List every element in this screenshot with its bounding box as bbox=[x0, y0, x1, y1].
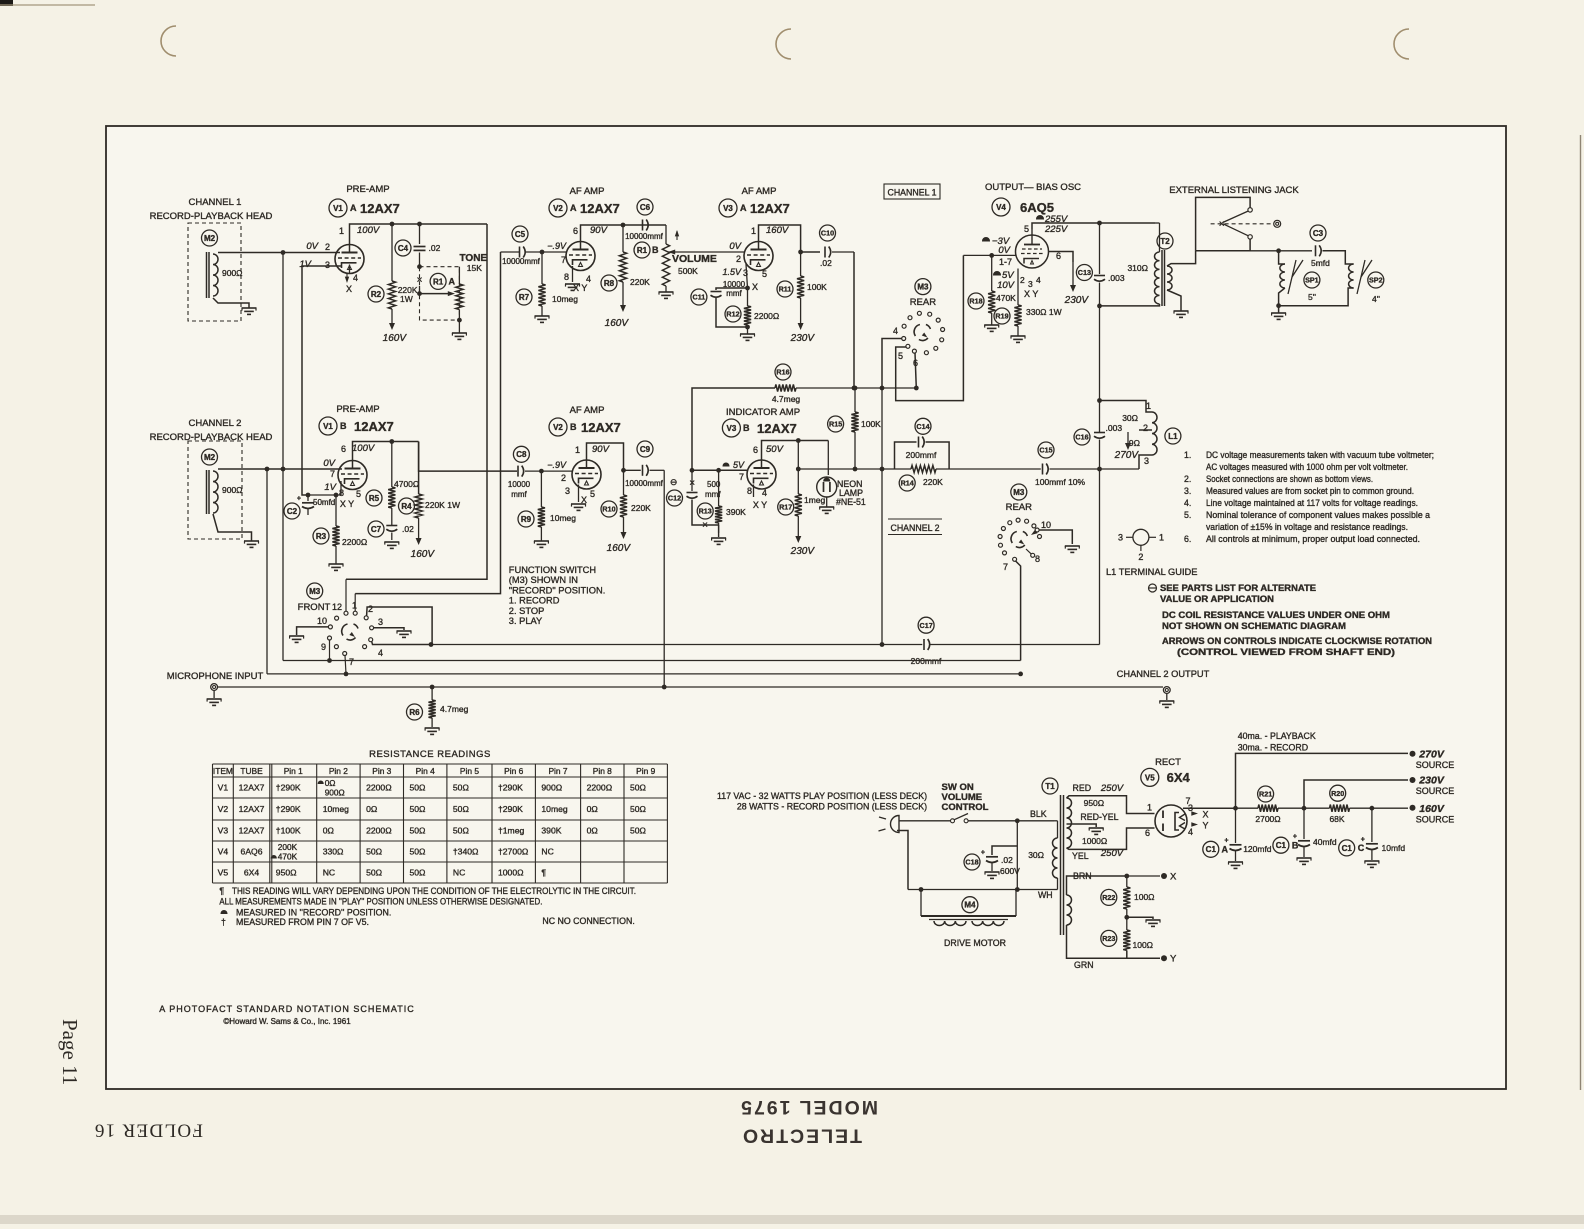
transformer T2 bbox=[1157, 233, 1173, 249]
svg-text:C5: C5 bbox=[515, 230, 526, 239]
svg-text:2200Ω: 2200Ω bbox=[342, 537, 367, 547]
svg-text:NC NO CONNECTION.: NC NO CONNECTION. bbox=[542, 916, 634, 926]
wire 160V source line bbox=[1350, 807, 1409, 809]
svg-text:V1: V1 bbox=[218, 783, 229, 793]
svg-text:310Ω: 310Ω bbox=[1127, 263, 1148, 273]
wire R11 to 230V bbox=[800, 298, 802, 324]
svg-text:2. STOP: 2. STOP bbox=[509, 606, 544, 616]
wire T2 primary top bbox=[1155, 222, 1160, 224]
svg-text:CHANNEL 2 OUTPUT: CHANNEL 2 OUTPUT bbox=[1117, 669, 1210, 679]
ground switch pin 10 bbox=[289, 635, 304, 637]
svg-text:30Ω: 30Ω bbox=[1122, 413, 1138, 423]
svg-text:Y: Y bbox=[1170, 954, 1177, 965]
svg-text:100K: 100K bbox=[807, 282, 827, 292]
svg-text:variation of ±15% in voltage a: variation of ±15% in voltage and resista… bbox=[1206, 522, 1408, 532]
svg-text:R14: R14 bbox=[901, 479, 914, 488]
capacitor C2 50mfd bbox=[284, 503, 300, 519]
wire R23 bottom to Y and heater bottom bbox=[1127, 950, 1160, 958]
ground microphone jack bbox=[207, 698, 222, 700]
svg-text:×: × bbox=[417, 275, 423, 286]
svg-text:12AX7: 12AX7 bbox=[360, 201, 400, 216]
svg-text:¶: ¶ bbox=[541, 868, 546, 878]
svg-text:−.9V: −.9V bbox=[547, 241, 567, 251]
T1 center tap RED-YEL bbox=[1067, 824, 1097, 827]
svg-text:0Ω: 0Ω bbox=[323, 826, 335, 836]
ground V3A cathode node bbox=[745, 325, 750, 330]
svg-text:50V: 50V bbox=[766, 444, 785, 455]
svg-text:B: B bbox=[652, 245, 659, 255]
svg-text:200K: 200K bbox=[278, 842, 298, 852]
svg-text:390K: 390K bbox=[726, 507, 746, 517]
svg-text:160V: 160V bbox=[411, 549, 436, 560]
svg-text:900Ω: 900Ω bbox=[541, 783, 562, 793]
pin labels V5 heater bbox=[1191, 811, 1198, 816]
svg-text:RECORD-PLAYBACK HEAD: RECORD-PLAYBACK HEAD bbox=[150, 211, 273, 222]
svg-text:12AX7: 12AX7 bbox=[354, 419, 394, 434]
svg-text:10000mmf: 10000mmf bbox=[625, 479, 664, 488]
svg-text:220K: 220K bbox=[630, 277, 650, 287]
svg-text:10: 10 bbox=[317, 616, 327, 626]
svg-text:T2: T2 bbox=[1160, 237, 1170, 246]
wire SP1 bottom to ground bbox=[1279, 288, 1285, 313]
svg-text:C10: C10 bbox=[821, 229, 834, 238]
wire riser x882 from R16 line down to bus A bbox=[881, 388, 883, 645]
svg-text:7: 7 bbox=[1003, 562, 1008, 572]
resistor R4 220K 1W bbox=[418, 442, 420, 495]
wire V2B cathode to ground bbox=[578, 485, 580, 503]
svg-text:100K: 100K bbox=[861, 419, 881, 429]
wire R8 to 160V bbox=[622, 282, 624, 306]
svg-text:12AX7: 12AX7 bbox=[581, 420, 621, 435]
pentode V4 bbox=[1016, 235, 1049, 268]
svg-text:3. PLAY: 3. PLAY bbox=[509, 616, 542, 626]
svg-text:M4: M4 bbox=[964, 901, 976, 910]
svg-text:All controls at minimum, prop: All controls at minimum, proper output l… bbox=[1206, 534, 1420, 544]
svg-text:4.7meg: 4.7meg bbox=[772, 394, 801, 404]
svg-text:900Ω: 900Ω bbox=[222, 268, 243, 278]
svg-text:†290K: †290K bbox=[498, 804, 523, 814]
wire head ch2 lower lead to ground bbox=[213, 514, 252, 541]
svg-text:C9: C9 bbox=[640, 445, 651, 454]
svg-text:3: 3 bbox=[325, 260, 330, 270]
svg-text:X: X bbox=[1203, 810, 1209, 820]
svg-text:4'': 4'' bbox=[1372, 294, 1380, 304]
microphone input jack bbox=[211, 684, 218, 691]
svg-text:6X4: 6X4 bbox=[1167, 770, 1191, 785]
svg-text:.02: .02 bbox=[1001, 855, 1013, 865]
svg-text:50Ω: 50Ω bbox=[630, 826, 647, 836]
resistor R22 100 ohm bbox=[1126, 876, 1128, 887]
ground R19 bbox=[1017, 326, 1019, 336]
capacitor C8 10000mmf bbox=[513, 446, 529, 462]
svg-text:C3: C3 bbox=[1313, 229, 1324, 238]
capacitor C11 10000mmf bbox=[691, 289, 707, 305]
svg-text:AF AMP: AF AMP bbox=[570, 405, 605, 416]
svg-text:V1: V1 bbox=[323, 422, 333, 431]
svg-text:1: 1 bbox=[1159, 533, 1164, 543]
ground T2 secondary bbox=[1174, 310, 1189, 312]
svg-text:0V: 0V bbox=[323, 458, 336, 469]
capacitor C17 200mmf bbox=[918, 617, 934, 633]
svg-text:R16: R16 bbox=[776, 368, 789, 377]
svg-text:Pin 4: Pin 4 bbox=[416, 766, 435, 776]
svg-text:6: 6 bbox=[1056, 251, 1061, 261]
svg-text:TUBE: TUBE bbox=[240, 766, 263, 776]
svg-text:330Ω: 330Ω bbox=[323, 847, 344, 857]
wire R21 to R20 bbox=[1278, 807, 1330, 809]
wire jack to speakers bbox=[1250, 250, 1312, 252]
svg-text:5: 5 bbox=[590, 489, 595, 499]
ground R7 bbox=[541, 306, 543, 316]
svg-text:RECT: RECT bbox=[1155, 757, 1181, 768]
svg-text:C18: C18 bbox=[965, 858, 978, 867]
svg-text:40mfd: 40mfd bbox=[1313, 837, 1337, 847]
svg-text:2: 2 bbox=[1138, 552, 1143, 562]
svg-text:.02: .02 bbox=[820, 258, 832, 268]
triode V1A bbox=[335, 245, 364, 274]
svg-text:A: A bbox=[740, 203, 747, 213]
capacitor C6 10000mmf bbox=[637, 199, 653, 215]
svg-text:2700Ω: 2700Ω bbox=[1255, 814, 1280, 824]
svg-text:C1: C1 bbox=[1206, 845, 1217, 854]
svg-text:T1: T1 bbox=[1045, 782, 1055, 791]
wire V2A cathode to ground bbox=[572, 266, 574, 282]
motor M4 drive motor bbox=[962, 897, 978, 913]
triode V3A bbox=[744, 242, 773, 271]
svg-text:R5: R5 bbox=[369, 494, 380, 503]
svg-text:DC voltage measurements taken: DC voltage measurements taken with vacuu… bbox=[1206, 450, 1434, 460]
svg-text:NC: NC bbox=[323, 868, 335, 878]
svg-text:5: 5 bbox=[898, 351, 903, 361]
wire T2 primary bottom bbox=[1100, 304, 1160, 306]
ground C1A bbox=[1228, 861, 1243, 863]
svg-text:RESISTANCE READINGS: RESISTANCE READINGS bbox=[369, 749, 491, 760]
wire main B+ line bbox=[1236, 807, 1259, 809]
wire V1A plate rail bbox=[350, 224, 488, 238]
svg-text:2200Ω: 2200Ω bbox=[754, 311, 779, 321]
svg-text:50Ω: 50Ω bbox=[453, 783, 470, 793]
svg-text:L1 TERMINAL GUIDE: L1 TERMINAL GUIDE bbox=[1106, 567, 1197, 577]
svg-text:NC: NC bbox=[453, 868, 465, 878]
svg-text:SOURCE: SOURCE bbox=[1416, 760, 1455, 770]
svg-text:†100K: †100K bbox=[276, 826, 301, 836]
svg-text:.003: .003 bbox=[1106, 423, 1123, 433]
ground R9 bbox=[540, 527, 542, 541]
resistor R3 2200 ohm bbox=[335, 495, 337, 526]
svg-text:270V: 270V bbox=[1114, 450, 1140, 461]
svg-text:⊖: ⊖ bbox=[670, 477, 678, 487]
svg-text:2200Ω: 2200Ω bbox=[587, 783, 613, 793]
svg-text:REAR: REAR bbox=[1006, 502, 1033, 513]
svg-text:10: 10 bbox=[1041, 520, 1051, 530]
svg-text:C11: C11 bbox=[693, 293, 706, 302]
wire 270V source line bbox=[1236, 753, 1409, 808]
svg-text:50Ω: 50Ω bbox=[366, 868, 383, 878]
svg-text:4.7meg: 4.7meg bbox=[440, 704, 469, 714]
svg-text:REAR: REAR bbox=[910, 297, 937, 308]
svg-text:90V: 90V bbox=[592, 444, 611, 455]
svg-text:V5: V5 bbox=[218, 868, 229, 878]
svg-text:MEASURED FROM PIN 7 OF V5.: MEASURED FROM PIN 7 OF V5. bbox=[236, 917, 369, 927]
svg-text:220K: 220K bbox=[923, 477, 943, 487]
svg-text:470K: 470K bbox=[996, 293, 1016, 303]
svg-text:2: 2 bbox=[736, 254, 741, 264]
resistor R9 10meg bbox=[540, 471, 542, 507]
svg-text:4700Ω: 4700Ω bbox=[394, 479, 419, 489]
svg-text:0Ω: 0Ω bbox=[366, 804, 378, 814]
switch on volume control bbox=[951, 819, 955, 823]
svg-text:R19: R19 bbox=[995, 312, 1008, 321]
ground R13 bbox=[718, 525, 720, 537]
svg-text:5: 5 bbox=[356, 489, 361, 499]
svg-text:−.9V: −.9V bbox=[547, 460, 567, 470]
svg-text:C6: C6 bbox=[640, 203, 651, 212]
svg-text:SP2: SP2 bbox=[1369, 276, 1383, 285]
ground V2A cathode bbox=[565, 283, 580, 285]
svg-text:+: + bbox=[1361, 837, 1365, 844]
svg-text:Pin 3: Pin 3 bbox=[372, 766, 391, 776]
svg-text:NC: NC bbox=[541, 847, 553, 857]
rectifier tube V5 bbox=[1155, 805, 1187, 837]
svg-text:V5: V5 bbox=[1145, 773, 1155, 782]
svg-text:250V: 250V bbox=[1100, 848, 1125, 859]
svg-text:CHANNEL 2: CHANNEL 2 bbox=[189, 418, 242, 429]
wire ch2 head bus down to mic line bbox=[266, 469, 268, 674]
svg-text:10meg: 10meg bbox=[552, 294, 578, 304]
wire R16 line bbox=[692, 388, 775, 470]
resistor R6 4.7meg bbox=[431, 687, 433, 700]
svg-text:C16: C16 bbox=[1075, 433, 1088, 442]
svg-text:(CONTROL VIEWED FROM SHAFT END: (CONTROL VIEWED FROM SHAFT END) bbox=[1177, 647, 1395, 657]
triode V3B bbox=[747, 460, 776, 489]
svg-text:330Ω 1W: 330Ω 1W bbox=[1026, 307, 1062, 317]
resistor R21 2700 ohm bbox=[1258, 805, 1278, 812]
svg-text:90V: 90V bbox=[590, 225, 609, 236]
svg-text:160V: 160V bbox=[607, 543, 632, 554]
wire switch to T1 bbox=[968, 820, 1054, 822]
svg-text:R1: R1 bbox=[637, 246, 648, 255]
svg-text:Pin 9: Pin 9 bbox=[636, 766, 655, 776]
wire plug to switch bbox=[899, 820, 951, 822]
svg-text:50Ω: 50Ω bbox=[410, 847, 427, 857]
wire T1 HV bottom to V5 pin 6 bbox=[1067, 828, 1155, 849]
ac plug bbox=[891, 816, 900, 833]
svg-text:10000: 10000 bbox=[508, 480, 531, 489]
svg-text:7: 7 bbox=[330, 469, 335, 479]
wire V3B cathode bbox=[753, 485, 755, 498]
svg-text:OUTPUT— BIAS OSC: OUTPUT— BIAS OSC bbox=[985, 182, 1081, 193]
wire V4 grid bbox=[963, 254, 1015, 256]
svg-text:EXTERNAL LISTENING JACK: EXTERNAL LISTENING JACK bbox=[1169, 185, 1299, 196]
svg-text:mmf: mmf bbox=[511, 490, 527, 499]
resistor R10 220K bbox=[623, 470, 625, 495]
svg-text:†: † bbox=[221, 917, 226, 927]
svg-text:1V: 1V bbox=[324, 482, 337, 493]
svg-text:3: 3 bbox=[1118, 533, 1123, 543]
svg-text:R4: R4 bbox=[401, 502, 412, 511]
ground head ch2 bbox=[244, 540, 259, 542]
svg-text:R23: R23 bbox=[1102, 934, 1115, 943]
svg-text:C15: C15 bbox=[1039, 446, 1052, 455]
svg-text:0Ω: 0Ω bbox=[325, 778, 336, 788]
svg-text:V4: V4 bbox=[996, 203, 1006, 212]
T1 heater winding bbox=[1067, 895, 1072, 925]
resistor R23 100 ohm bbox=[1123, 930, 1130, 950]
svg-text:Y: Y bbox=[1203, 821, 1209, 831]
svg-text:1: 1 bbox=[1146, 401, 1151, 411]
switch M3 rear (channel 2) bbox=[1011, 484, 1027, 500]
svg-text:Pin 8: Pin 8 bbox=[593, 766, 612, 776]
svg-text:6AQ6: 6AQ6 bbox=[241, 847, 263, 857]
wire V1A cathode pin3 to channel2 cathode node bbox=[302, 266, 342, 495]
svg-text:1W: 1W bbox=[400, 294, 413, 304]
wire V3B grid line bbox=[692, 469, 748, 471]
wire R22 R23 junction to ground bbox=[1126, 909, 1128, 930]
svg-text:V4: V4 bbox=[218, 847, 229, 857]
wire V1A plate rail down right side bbox=[346, 224, 487, 579]
svg-text:15K: 15K bbox=[467, 263, 482, 273]
svg-text:FRONT: FRONT bbox=[298, 602, 331, 613]
resistor R19 330 ohm 1W bbox=[994, 308, 1010, 324]
wire V4 screen to 230V bbox=[1049, 252, 1074, 263]
inductor L1 bbox=[1165, 428, 1181, 444]
resistor R13 390K bbox=[718, 470, 720, 506]
svg-text:50Ω: 50Ω bbox=[630, 804, 647, 814]
svg-text:×: × bbox=[1219, 219, 1225, 230]
svg-text:+: + bbox=[1293, 834, 1297, 841]
switch M3 rear (channel 1) bbox=[915, 279, 931, 295]
svg-text:X Y: X Y bbox=[1024, 289, 1038, 299]
svg-text:X: X bbox=[1170, 872, 1177, 883]
capacitor C18 .02 600V bbox=[1016, 821, 1018, 890]
svg-text:FOLDER 16: FOLDER 16 bbox=[94, 1120, 203, 1141]
svg-text:V2: V2 bbox=[553, 423, 563, 432]
svg-text:X Y: X Y bbox=[340, 499, 354, 509]
svg-text:100V: 100V bbox=[357, 225, 381, 236]
wire plate node down to 469 line bbox=[797, 441, 799, 470]
svg-text:+: + bbox=[297, 496, 301, 503]
svg-text:230V: 230V bbox=[1418, 775, 1445, 787]
resistor R11 100K bbox=[800, 252, 802, 276]
svg-text:R20: R20 bbox=[1331, 789, 1344, 798]
svg-text:12AX7: 12AX7 bbox=[580, 201, 620, 216]
svg-text:225V: 225V bbox=[1044, 224, 1069, 235]
svg-text:M2: M2 bbox=[204, 234, 216, 243]
svg-text:10V: 10V bbox=[997, 280, 1016, 291]
svg-text:30Ω: 30Ω bbox=[1028, 850, 1044, 860]
svg-text:X: X bbox=[752, 282, 758, 292]
svg-text:B: B bbox=[340, 421, 347, 431]
svg-text:4: 4 bbox=[1188, 827, 1193, 837]
svg-text:B: B bbox=[570, 422, 577, 432]
svg-text:Measured values are from socke: Measured values are from socket pin to c… bbox=[1206, 486, 1414, 496]
capacitor C9 10000mmf bbox=[637, 441, 653, 457]
wire node A vertical (ch1 head bus down to switch) bbox=[282, 253, 284, 661]
external listening jack switch bbox=[1196, 197, 1251, 250]
capacitor C10 .02 bbox=[820, 225, 836, 241]
svg-text:1. RECORD: 1. RECORD bbox=[509, 596, 560, 606]
svg-text:2200Ω: 2200Ω bbox=[366, 826, 392, 836]
svg-text:PRE-AMP: PRE-AMP bbox=[336, 404, 379, 415]
svg-text:C12: C12 bbox=[668, 494, 681, 503]
svg-text:1: 1 bbox=[352, 601, 357, 611]
svg-text:AF AMP: AF AMP bbox=[570, 186, 605, 197]
svg-text:30ma. - RECORD: 30ma. - RECORD bbox=[1238, 743, 1308, 753]
svg-text:R8: R8 bbox=[604, 279, 615, 288]
svg-text:R17: R17 bbox=[779, 503, 792, 512]
node CHANNEL 2 underlined label bbox=[888, 518, 942, 520]
svg-text:B: B bbox=[743, 423, 750, 433]
svg-text:R21: R21 bbox=[1259, 790, 1272, 799]
capacitor C5 10000mmf bbox=[512, 226, 528, 242]
capacitor C14 / resistor R14 loop bbox=[915, 418, 931, 434]
ground R3 bbox=[335, 546, 337, 564]
svg-text:1000Ω: 1000Ω bbox=[498, 868, 524, 878]
svg-text:Pin 2: Pin 2 bbox=[329, 766, 348, 776]
ground T1 center tap bbox=[1089, 827, 1104, 829]
resistor R20 68K bbox=[1330, 805, 1350, 812]
svg-text:40ma. - PLAYBACK: 40ma. - PLAYBACK bbox=[1238, 731, 1316, 741]
svg-text:8: 8 bbox=[747, 486, 752, 496]
svg-text:B: B bbox=[1292, 841, 1299, 851]
svg-text:12AX7: 12AX7 bbox=[239, 826, 265, 836]
ground C1B bbox=[1297, 857, 1312, 859]
svg-text:6: 6 bbox=[1145, 828, 1150, 838]
svg-text:10meg: 10meg bbox=[323, 804, 349, 814]
ground tone control bbox=[458, 320, 460, 333]
wire V4 plate rail bbox=[1032, 223, 1155, 229]
svg-text:4: 4 bbox=[1036, 275, 1041, 285]
svg-text:R10: R10 bbox=[602, 505, 615, 514]
speaker SP1 5in bbox=[1280, 264, 1285, 288]
svg-text:Pin 1: Pin 1 bbox=[284, 766, 303, 776]
svg-text:6AQ5: 6AQ5 bbox=[1020, 200, 1054, 215]
svg-text:A: A bbox=[1222, 845, 1229, 855]
svg-text:117 VAC - 32 WATTS PLAY PO: 117 VAC - 32 WATTS PLAY POSITION (LESS D… bbox=[717, 791, 927, 801]
svg-text:R3: R3 bbox=[316, 532, 327, 541]
neon lamp NE-51 bbox=[827, 441, 829, 476]
svg-text:100V: 100V bbox=[352, 443, 376, 454]
svg-text:VALUE OR APPLICATION: VALUE OR APPLICATION bbox=[1160, 594, 1274, 604]
svg-text:4: 4 bbox=[893, 326, 898, 336]
svg-text:.003: .003 bbox=[1108, 273, 1125, 283]
capacitor C16 .003 bbox=[1074, 429, 1090, 445]
svg-text:2200Ω: 2200Ω bbox=[366, 783, 392, 793]
svg-text:2: 2 bbox=[561, 473, 566, 483]
svg-text:†290K: †290K bbox=[276, 783, 301, 793]
svg-text:3.: 3. bbox=[1184, 486, 1191, 496]
capacitor C1B 40mfd bbox=[1303, 808, 1305, 839]
svg-text:.02: .02 bbox=[402, 524, 414, 534]
svg-text:SOURCE: SOURCE bbox=[1416, 815, 1455, 825]
resistor R14 220K bbox=[895, 468, 912, 470]
svg-text:C1: C1 bbox=[1342, 844, 1353, 853]
svg-text:1000Ω: 1000Ω bbox=[1082, 836, 1107, 846]
svg-text:R15: R15 bbox=[829, 420, 842, 429]
record-playback head M2 (channel 2) bbox=[188, 441, 242, 539]
capacitor C1A 120mfd bbox=[1235, 808, 1237, 843]
svg-text:M3: M3 bbox=[309, 587, 321, 596]
svg-text:9: 9 bbox=[321, 642, 326, 652]
svg-text:5: 5 bbox=[1024, 224, 1029, 234]
svg-text:Socket connections are shown a: Socket connections are shown as bottom v… bbox=[1206, 474, 1373, 484]
resistor R12 2200 ohm bbox=[744, 306, 751, 325]
wire C10 down to R16 line bbox=[853, 252, 855, 388]
svg-text:WH: WH bbox=[1038, 890, 1053, 900]
svg-text:6.: 6. bbox=[1184, 534, 1191, 544]
svg-text:1: 1 bbox=[1147, 803, 1152, 813]
svg-text:INDICATOR AMP: INDICATOR AMP bbox=[726, 407, 800, 418]
